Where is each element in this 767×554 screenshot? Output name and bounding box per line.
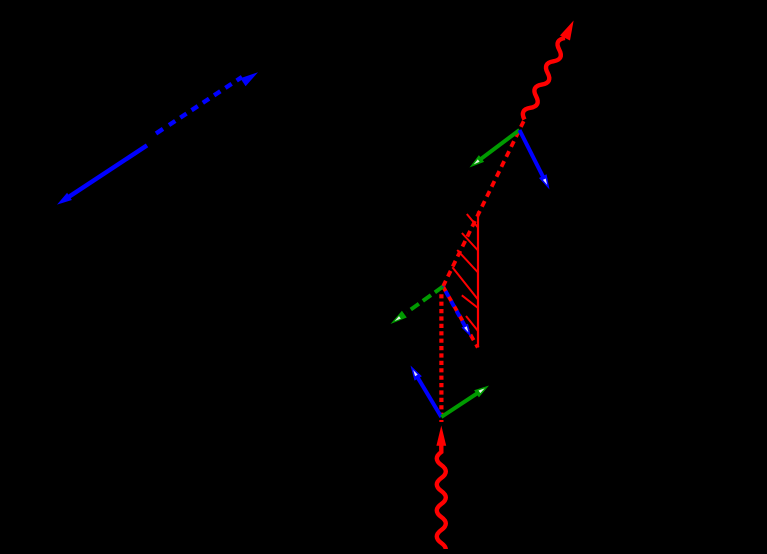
polarization vector green at V2 [441,386,489,418]
polarization vector blue at V1 [520,130,550,190]
dashed green polarization arrow at J [391,287,444,325]
hatching of scattering angle region [452,214,478,331]
polarization vector green at V1 [470,130,520,168]
dashed blue polarization arrow at J [443,287,471,338]
dashed red line J to P (lower scattering construction) [443,287,478,348]
electron momentum double arrow (blue, top-left) [57,72,258,204]
vertical red line (scattering angle construction) [477,212,479,348]
dotted red line J to V2 (incident photon direction) [439,294,443,422]
scattered photon wavy line (red, top) [519,18,578,122]
incident photon wavy line (red, bottom) [436,426,446,554]
dashed red line J to V1 (scattered photon direction) [443,120,525,287]
polarization vector blue at V2 [411,366,442,418]
